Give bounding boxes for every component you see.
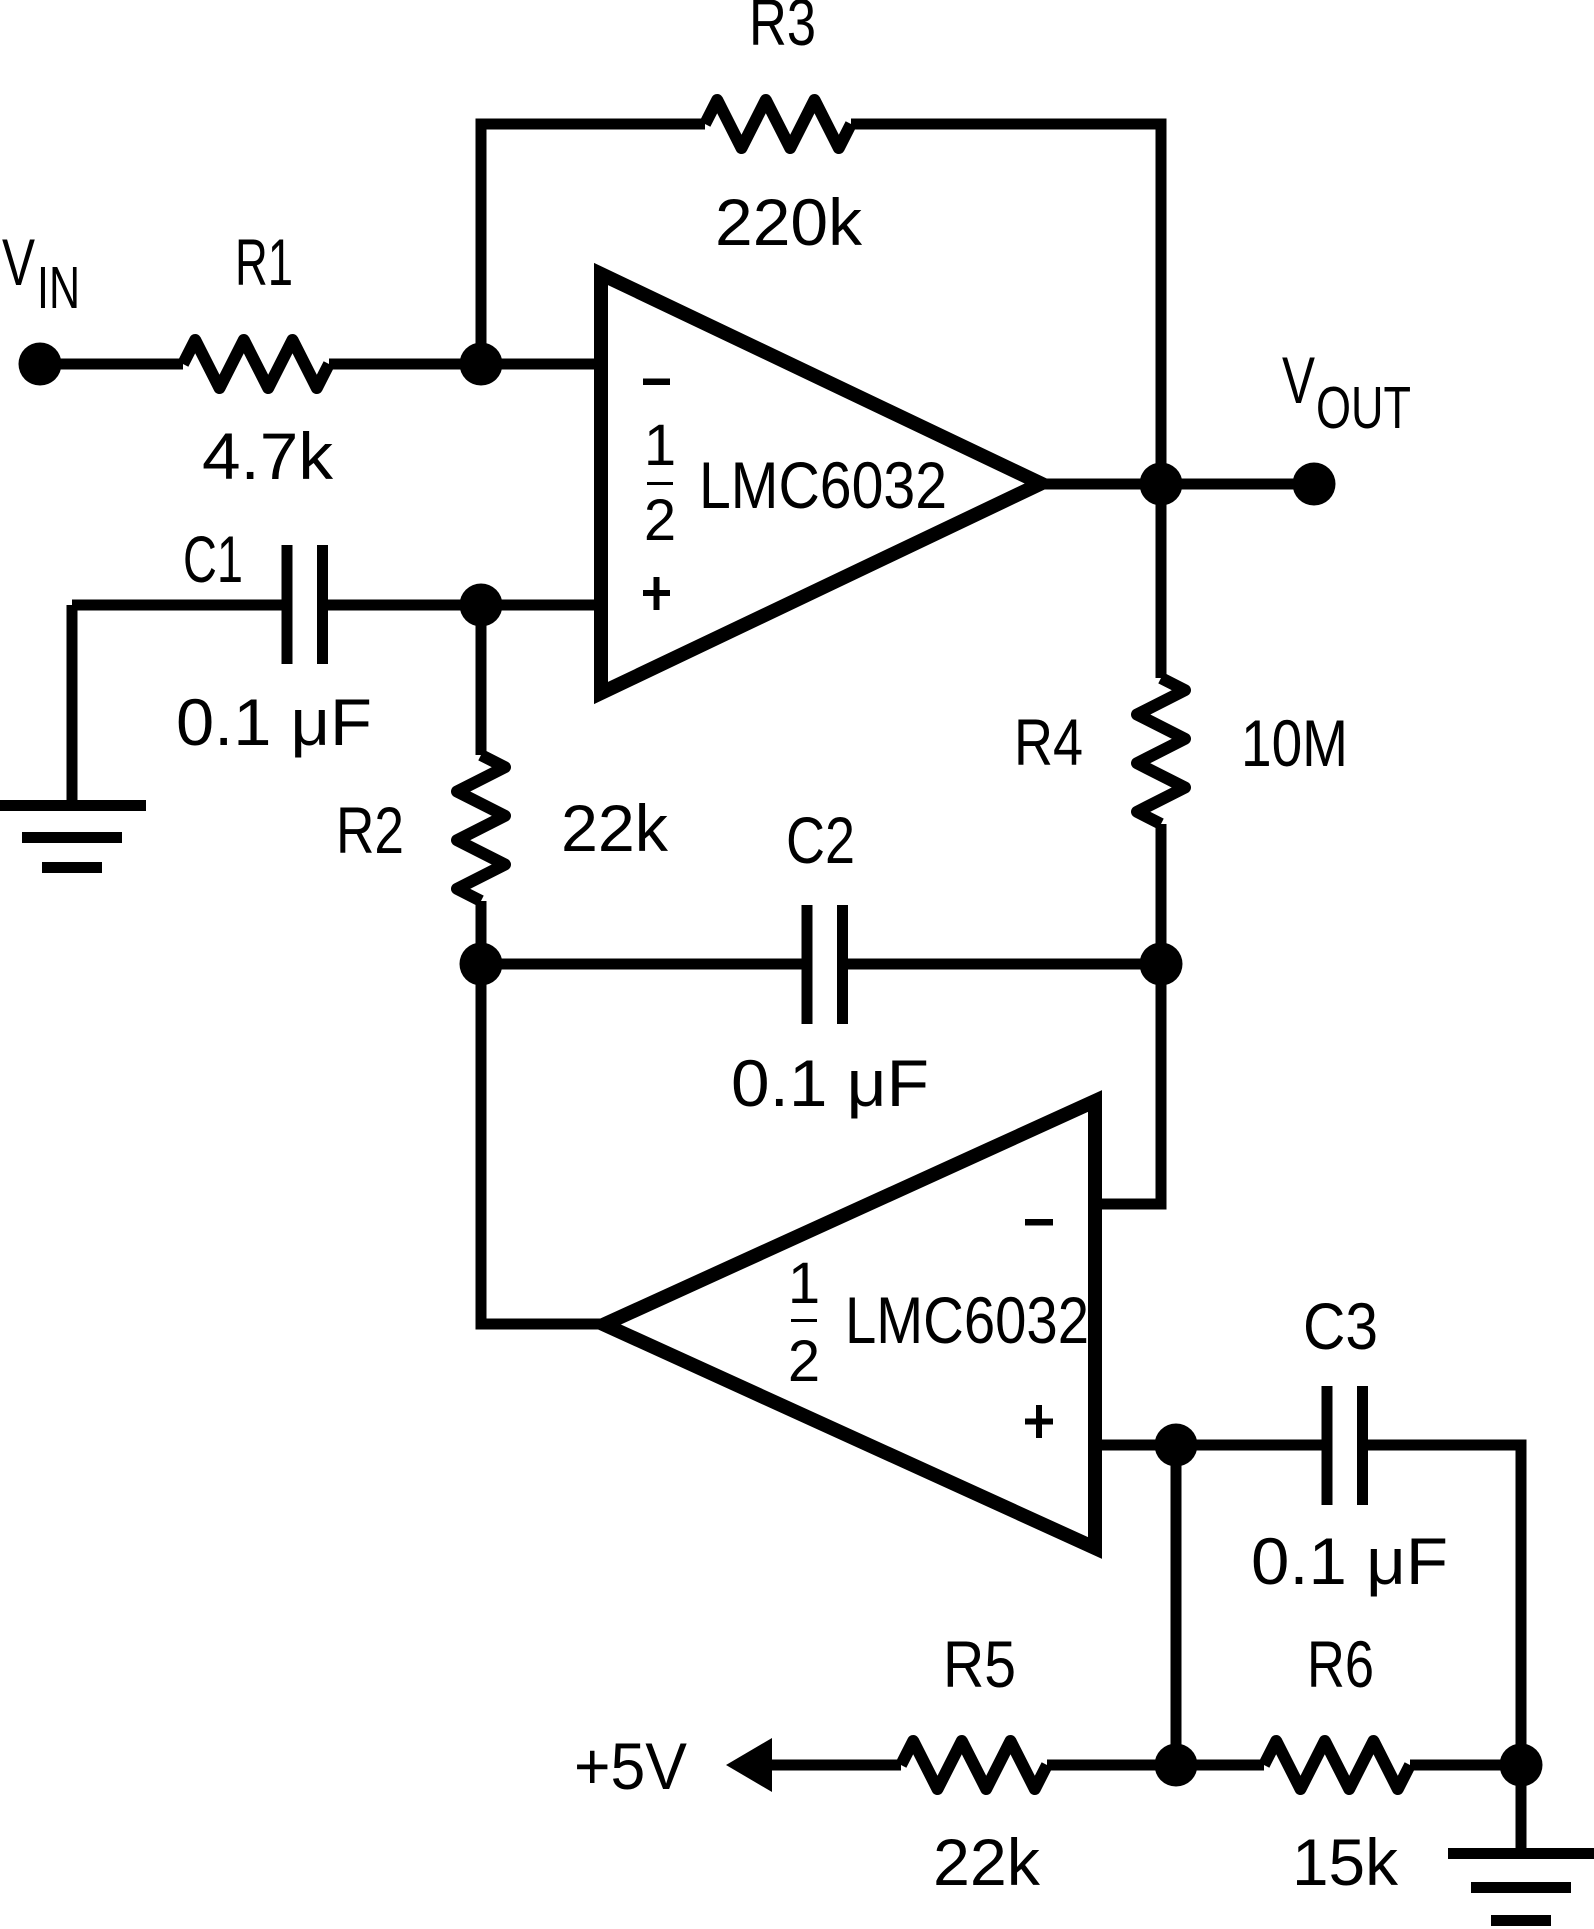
svg-text:R4: R4	[1014, 705, 1083, 779]
wire: node D to C2 left plate	[481, 959, 802, 970]
wire: node D down to op-amp U2 output (feedback)	[481, 964, 604, 1324]
svg-text:C2: C2	[786, 803, 855, 877]
svg-text:1: 1	[644, 413, 676, 478]
svg-text:2: 2	[644, 488, 676, 553]
output node junction	[1140, 463, 1183, 506]
svg-text:4.7k: 4.7k	[202, 419, 334, 493]
svg-text:22k: 22k	[933, 1825, 1041, 1899]
resistor R2	[457, 755, 505, 901]
op-amp U1 fraction 1/2	[644, 413, 676, 553]
svg-text:R3: R3	[749, 0, 816, 59]
wire: node F down to node G	[1171, 1445, 1182, 1765]
svg-text:220k: 220k	[715, 185, 863, 259]
wire: node H down to ground 2	[1516, 1765, 1527, 1848]
wire: C2 right plate to node E	[848, 959, 1161, 970]
resistor R1	[183, 340, 329, 388]
wire: node C down to R2	[476, 605, 487, 755]
wire: node C to op-amp U1 non-inverting input	[481, 600, 600, 611]
node A junction	[460, 343, 503, 386]
wire: op-amp U2 non-inverting input to node F	[1095, 1440, 1176, 1451]
terminal VOUT	[1293, 463, 1336, 506]
svg-text:2: 2	[788, 1329, 820, 1394]
svg-text:LMC6032: LMC6032	[699, 448, 947, 522]
wire: down to ground 1	[67, 605, 78, 806]
node F junction	[1155, 1424, 1198, 1467]
node G junction	[1155, 1744, 1198, 1787]
wire: C3 right plate down to node H	[1367, 1445, 1521, 1765]
resistor R5	[901, 1741, 1047, 1789]
wire: node F to C3 left plate	[1176, 1440, 1322, 1451]
svg-text:R6: R6	[1307, 1627, 1374, 1701]
svg-text:22k: 22k	[561, 791, 669, 865]
op-amp U1 non-inverting pin label	[643, 577, 670, 610]
svg-text:0.1 μF: 0.1 μF	[1251, 1524, 1448, 1598]
ground (bottom right, R6)	[1448, 1848, 1594, 1926]
svg-text:10M: 10M	[1241, 706, 1348, 780]
+5V supply arrow	[726, 1738, 772, 1792]
svg-text:R5: R5	[943, 1627, 1016, 1701]
svg-text:C3: C3	[1303, 1289, 1378, 1363]
wire: node A up to R3 left lead	[481, 124, 705, 364]
wire: output node down to R4	[1156, 484, 1167, 678]
wire: R5 to node G	[1047, 1760, 1176, 1771]
svg-text:OUT: OUT	[1316, 375, 1411, 441]
svg-text:V: V	[2, 225, 35, 299]
op-amp U1 inverting pin label	[643, 379, 670, 386]
net label VOUT	[1282, 343, 1411, 441]
svg-text:V: V	[1282, 343, 1315, 417]
svg-text:0.1 μF: 0.1 μF	[176, 685, 372, 759]
resistor R6	[1264, 1741, 1410, 1789]
wire: VIN terminal to R1	[40, 359, 183, 370]
node C junction	[460, 584, 503, 627]
wire: node A to op-amp U1 inverting input	[481, 359, 600, 370]
wire: R4 to node E and op-amp U2 inverting input	[1095, 824, 1161, 1204]
svg-text:R1: R1	[235, 225, 293, 299]
wire: C1 right plate to node C	[328, 600, 481, 611]
wire: R1 to node A	[329, 359, 481, 370]
net label VIN	[2, 225, 80, 321]
wire: ground to C1 left plate	[72, 600, 282, 611]
svg-text:15k: 15k	[1292, 1825, 1399, 1899]
op-amp U2 fraction 1/2	[788, 1251, 820, 1394]
ground (left, C1)	[0, 800, 146, 873]
svg-text:+5V: +5V	[574, 1729, 687, 1803]
capacitor C2	[807, 905, 843, 1024]
wire: node G to R6	[1176, 1760, 1264, 1771]
svg-text:R2: R2	[336, 793, 404, 867]
op-amp U1 (1/2 LMC6032)	[601, 274, 1041, 693]
op-amp U2 (1/2 LMC6032)	[604, 1101, 1095, 1548]
op-amp U2 inverting pin label	[1025, 1219, 1053, 1226]
wire: R3 right lead down to output node	[851, 124, 1161, 484]
wire: R6 to node H	[1410, 1760, 1521, 1771]
resistor R3	[705, 100, 851, 148]
resistor R4	[1137, 678, 1185, 824]
wire: op-amp U1 output to VOUT terminal	[1041, 479, 1314, 490]
svg-text:0.1 μF: 0.1 μF	[731, 1046, 929, 1120]
capacitor C1	[287, 545, 323, 664]
node E junction	[1140, 943, 1183, 986]
svg-text:IN: IN	[37, 255, 80, 321]
capacitor C3	[1327, 1386, 1363, 1505]
wire: R2 bottom to node D	[476, 901, 487, 964]
op-amp U2 non-inverting pin label	[1025, 1405, 1053, 1438]
svg-text:LMC6032: LMC6032	[845, 1283, 1089, 1357]
terminal VIN	[19, 343, 62, 386]
node D junction	[460, 943, 503, 986]
svg-text:1: 1	[788, 1251, 820, 1316]
node H junction	[1500, 1744, 1543, 1787]
wire: +5V arrow to R5	[762, 1760, 901, 1771]
svg-text:C1: C1	[183, 522, 243, 596]
